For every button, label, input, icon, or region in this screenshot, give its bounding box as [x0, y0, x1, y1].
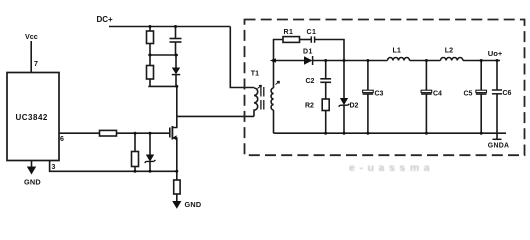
svg-text:GND: GND: [24, 178, 41, 187]
svg-text:R2: R2: [305, 103, 314, 110]
svg-text:C5: C5: [464, 91, 473, 98]
svg-text:C2: C2: [306, 78, 315, 85]
svg-text:C4: C4: [433, 91, 442, 98]
svg-text:D2: D2: [350, 103, 359, 110]
svg-text:D1: D1: [303, 49, 313, 56]
svg-text:C6: C6: [503, 90, 512, 97]
svg-text:R1: R1: [284, 29, 294, 36]
svg-text:Vcc: Vcc: [25, 32, 38, 41]
svg-text:C1: C1: [307, 29, 317, 36]
svg-text:e-uassma: e-uassma: [349, 162, 434, 174]
svg-text:L2: L2: [445, 46, 453, 55]
svg-text:DC+: DC+: [97, 15, 114, 24]
svg-text:L1: L1: [393, 46, 401, 55]
svg-text:3: 3: [52, 164, 56, 171]
svg-text:GNDA: GNDA: [488, 143, 510, 150]
svg-text:GND: GND: [185, 200, 202, 209]
svg-text:T1: T1: [251, 70, 259, 77]
svg-text:7: 7: [34, 61, 38, 68]
svg-text:C3: C3: [375, 91, 384, 98]
svg-text:6: 6: [60, 136, 64, 143]
svg-text:UC3842: UC3842: [16, 113, 48, 122]
svg-text:Uo+: Uo+: [488, 49, 503, 58]
